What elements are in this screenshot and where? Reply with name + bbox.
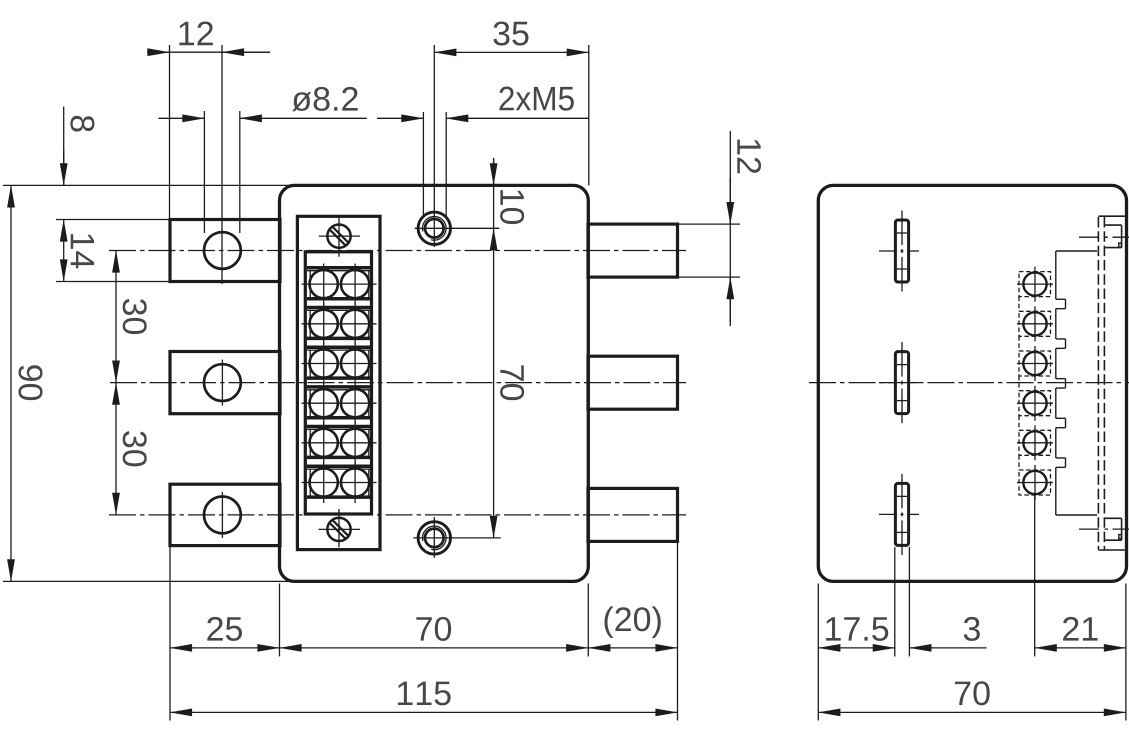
side terminal screw 4 bbox=[1017, 386, 1053, 421]
bottom clip centerline bbox=[1079, 528, 1129, 530]
centerline main horizontal (side view) bbox=[809, 382, 1129, 384]
terminal block inner frame bbox=[305, 252, 371, 514]
dim 8 bbox=[64, 107, 95, 186]
bottom extension lines (side view) bbox=[818, 496, 1126, 721]
dim ø8.2 extension lines bbox=[204, 111, 239, 233]
bottom extension lines (front view) bbox=[170, 541, 678, 720]
terminal cell row 3 (two clamp circles) bbox=[302, 343, 377, 384]
side terminal screw 5 bbox=[1017, 425, 1053, 460]
mounting plate hidden edges (side view) bbox=[1098, 216, 1124, 550]
dim 17.5 bbox=[818, 617, 895, 648]
dim 3 bbox=[909, 617, 986, 648]
right terminal tab 1 bbox=[588, 224, 678, 277]
dim 2xM5 extension lines bbox=[423, 45, 446, 247]
side-view slot 1 (3mm) bbox=[879, 211, 919, 292]
right terminal tab 2 bbox=[588, 356, 678, 409]
tab 2 hole vertical crosshair bbox=[221, 360, 223, 406]
terminal cell row 6 (two clamp circles) bbox=[302, 462, 377, 503]
terminal cell row 5 (two clamp circles) bbox=[302, 422, 377, 463]
dim 70 (bottom) bbox=[280, 617, 589, 648]
top clip bbox=[1105, 225, 1121, 248]
side-view slot 3 (3mm) bbox=[879, 474, 919, 555]
left mounting tab 3 bbox=[170, 484, 280, 545]
M5 hole top bbox=[415, 212, 500, 244]
hidden connectors between terminals bbox=[1018, 297, 1020, 470]
centerline tab row 1 bbox=[109, 250, 686, 252]
side-view slot 2 (3mm) bbox=[879, 342, 919, 423]
dim 12 (right tab) bbox=[730, 131, 761, 326]
body outline (side view) bbox=[818, 185, 1126, 581]
tab 3 hole ø8.2 bbox=[204, 497, 241, 534]
tab 2 hole ø8.2 bbox=[204, 364, 241, 401]
cover screw bottom bbox=[319, 509, 361, 547]
bottom clip bbox=[1105, 518, 1121, 540]
dim 2xM5 bbox=[377, 87, 589, 119]
dim 90 (left) bbox=[11, 185, 43, 581]
tab 3 hole vertical crosshair bbox=[221, 492, 223, 538]
dim 30 lower bbox=[116, 383, 147, 515]
dim 25 bbox=[170, 617, 280, 648]
dim 14 extension bbox=[56, 281, 170, 283]
side terminal screw 1 bbox=[1017, 267, 1053, 302]
right terminal tab 3 bbox=[588, 488, 678, 541]
dim 90 extension lines bbox=[3, 185, 292, 581]
dim 35 extension lines bbox=[588, 45, 590, 185]
body outline (front view) bbox=[280, 185, 589, 581]
cover screw top bbox=[319, 216, 360, 256]
dim 35 bbox=[434, 21, 589, 52]
side terminal screw 2 bbox=[1017, 306, 1053, 341]
terminal cell row 4 (two clamp circles) bbox=[302, 383, 377, 424]
left mounting tab 1 bbox=[170, 220, 280, 282]
dim 30 upper bbox=[116, 251, 147, 383]
dim 70 (side view width) bbox=[818, 681, 1126, 712]
terminal cell row 2 (two clamp circles) bbox=[302, 303, 377, 344]
side terminal screw 6 bbox=[1017, 465, 1053, 500]
dim 8 extension bbox=[56, 219, 170, 221]
terminal cell row 1 (two clamp circles) bbox=[302, 264, 377, 305]
dim ø8.2 bbox=[159, 87, 367, 118]
side terminal screw 3 bbox=[1017, 346, 1053, 381]
tab 1 hole ø8.2 bbox=[204, 232, 241, 269]
top clip centerline bbox=[1079, 236, 1129, 238]
dim 12 (top) extension lines bbox=[170, 45, 223, 284]
terminal block outer frame bbox=[297, 216, 380, 549]
dim 12 (right tab) extension lines bbox=[678, 224, 741, 277]
dim (20) bbox=[588, 606, 677, 648]
terminal housing staircase profile bbox=[1056, 251, 1097, 515]
M5 hole bottom bbox=[413, 517, 500, 558]
centerline main horizontal (front view) bbox=[110, 382, 686, 384]
centerline tab row 3 bbox=[109, 514, 686, 516]
dim 12 (top) bbox=[147, 21, 270, 52]
dim 14 bbox=[64, 220, 94, 282]
dim 70 (vertical, M5 spacing) bbox=[494, 228, 525, 538]
left mounting tab 2 bbox=[170, 352, 280, 414]
dim 10 bbox=[494, 158, 525, 228]
dim 21 bbox=[1035, 617, 1126, 648]
dim 115 bbox=[170, 682, 678, 713]
